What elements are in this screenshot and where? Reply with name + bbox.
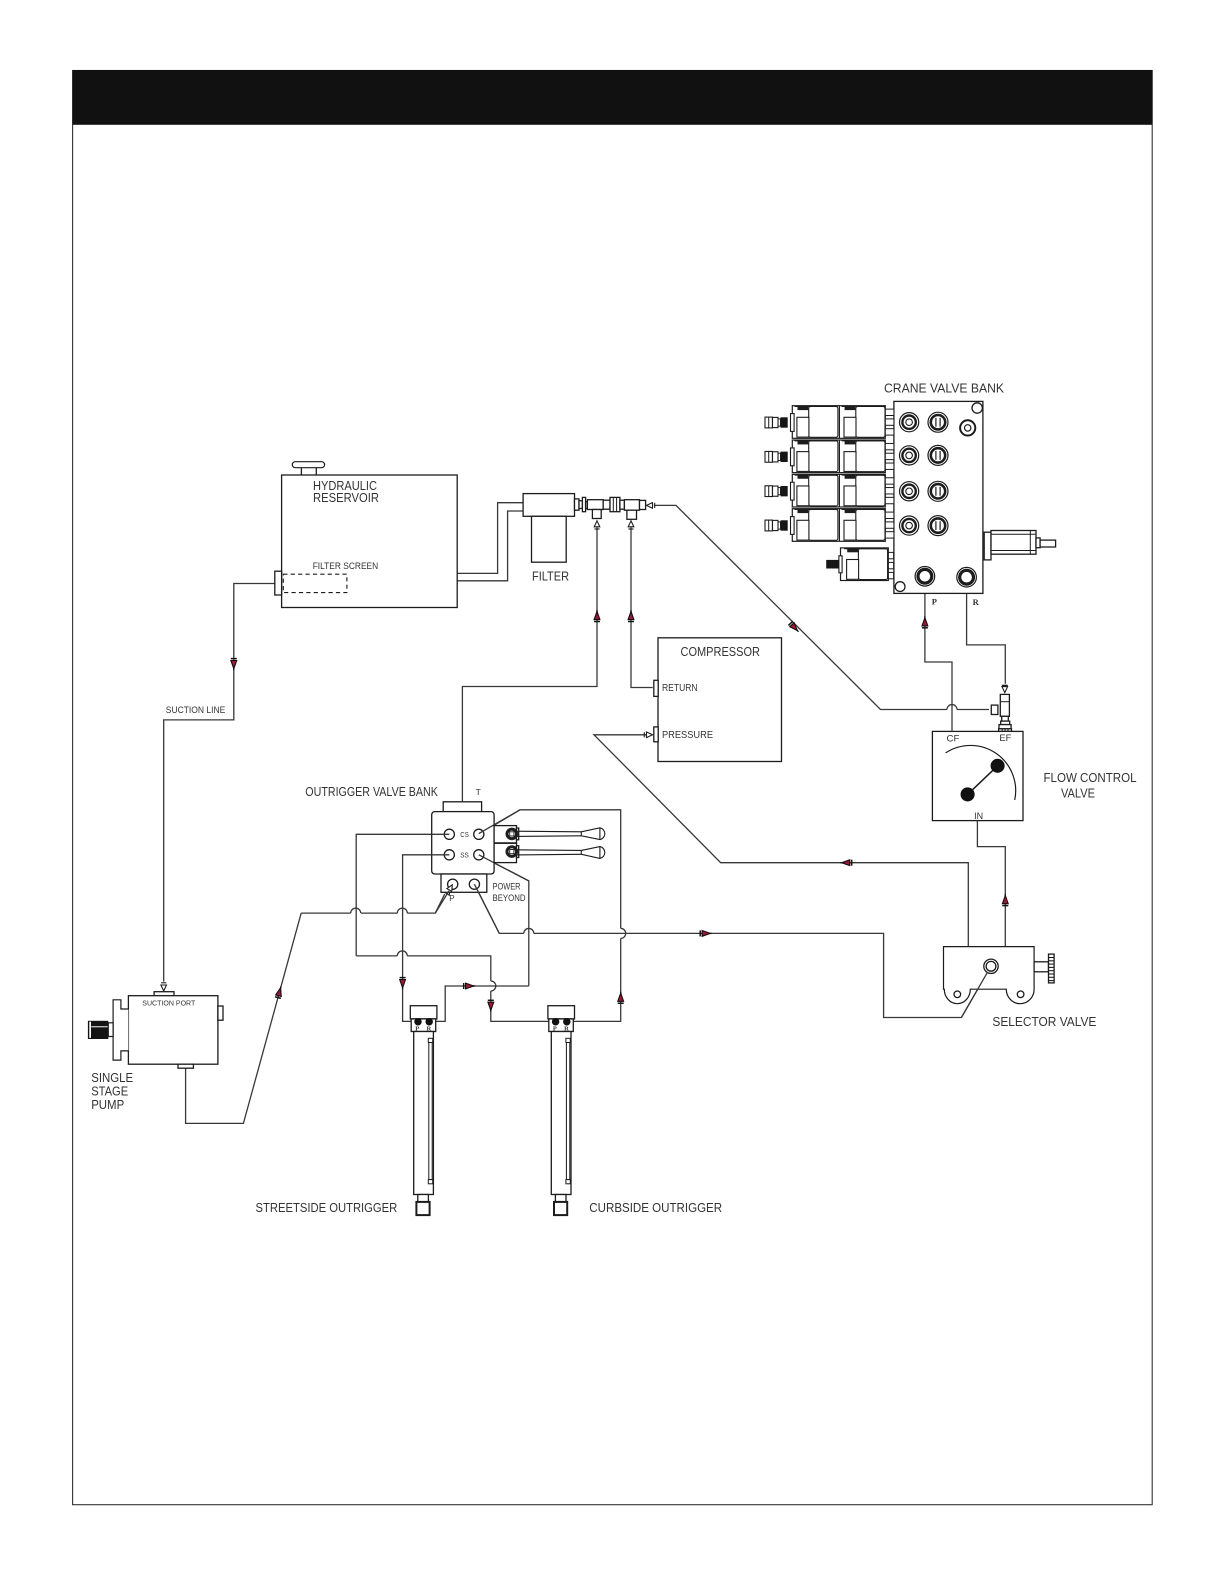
svg-text:CF: CF: [947, 734, 960, 745]
svg-text:PRESSURE: PRESSURE: [662, 730, 713, 741]
svg-text:P: P: [449, 894, 454, 903]
svg-text:BEYOND: BEYOND: [493, 893, 526, 903]
svg-text:POWER: POWER: [493, 881, 521, 891]
svg-text:SELECTOR VALVE: SELECTOR VALVE: [992, 1014, 1096, 1029]
svg-text:FILTER SCREEN: FILTER SCREEN: [313, 561, 379, 571]
svg-text:CRANE VALVE BANK: CRANE VALVE BANK: [884, 380, 1004, 395]
svg-text:SUCTION PORT: SUCTION PORT: [142, 998, 195, 1007]
svg-text:RESERVOIR: RESERVOIR: [313, 491, 379, 505]
svg-text:VALVE: VALVE: [1061, 786, 1095, 801]
svg-text:IN: IN: [974, 811, 983, 822]
svg-text:RETURN: RETURN: [662, 683, 698, 694]
svg-text:SS: SS: [460, 851, 469, 860]
svg-text:R: R: [973, 597, 980, 607]
svg-text:SUCTION LINE: SUCTION LINE: [166, 705, 226, 715]
svg-text:P: P: [932, 597, 937, 607]
svg-text:STREETSIDE OUTRIGGER: STREETSIDE OUTRIGGER: [256, 1200, 398, 1215]
svg-text:COMPRESSOR: COMPRESSOR: [681, 644, 761, 659]
svg-text:EF: EF: [999, 733, 1011, 744]
svg-text:FLOW CONTROL: FLOW CONTROL: [1044, 770, 1137, 785]
svg-text:CURBSIDE OUTRIGGER: CURBSIDE OUTRIGGER: [589, 1200, 722, 1215]
svg-text:CS: CS: [460, 830, 469, 839]
svg-text:OUTRIGGER VALVE BANK: OUTRIGGER VALVE BANK: [305, 784, 438, 799]
svg-text:PUMP: PUMP: [91, 1097, 124, 1112]
svg-text:T: T: [476, 787, 481, 797]
svg-text:FILTER: FILTER: [532, 568, 569, 583]
